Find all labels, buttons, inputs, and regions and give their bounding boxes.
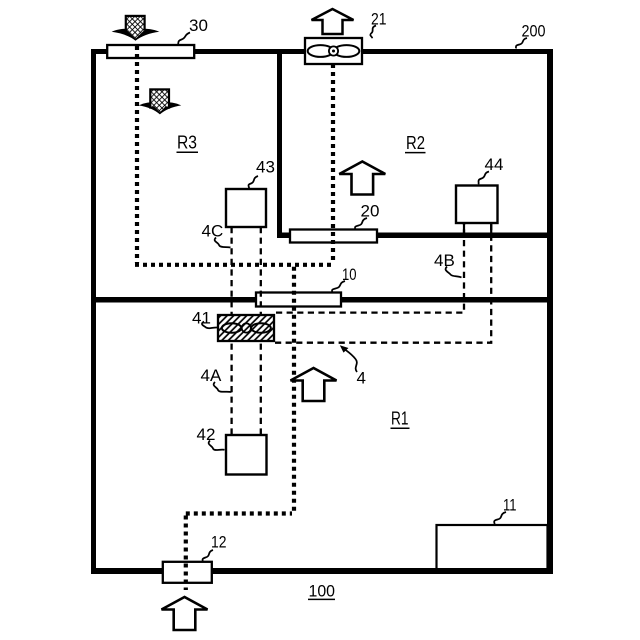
room label R1 <box>391 409 410 429</box>
outer wall bottom <box>91 568 553 574</box>
outside-air down arrow above vent 30 <box>112 16 160 41</box>
vent 20 <box>290 230 377 243</box>
vent 30 <box>107 45 194 58</box>
svg-text:4A: 4A <box>201 366 222 385</box>
fan 21 <box>305 38 362 64</box>
label 43 <box>248 157 274 188</box>
dotted flow line down through vent 12 <box>184 516 188 591</box>
svg-text:12: 12 <box>211 532 227 551</box>
signal line 4C/4A right <box>260 227 262 435</box>
svg-text:44: 44 <box>485 155 504 174</box>
sensor box 44 <box>456 186 498 234</box>
dotted flow line horizontal in R1 <box>186 511 292 515</box>
svg-text:20: 20 <box>361 201 380 220</box>
vent 10 <box>256 293 341 307</box>
label 4A <box>201 366 232 392</box>
dotted flow line up to fan 21 <box>331 64 335 263</box>
room label R2 <box>405 133 426 153</box>
label 41 <box>192 308 218 328</box>
dotted flow line from vent 30 down <box>135 46 139 263</box>
label 4C <box>202 221 231 247</box>
svg-text:R3: R3 <box>177 133 197 153</box>
outer wall left <box>91 49 96 574</box>
svg-text:42: 42 <box>197 425 216 444</box>
supply-air down arrow in R3 <box>139 89 181 114</box>
svg-text:200: 200 <box>522 21 546 40</box>
sensor box 42 <box>226 435 267 475</box>
svg-text:21: 21 <box>371 10 387 29</box>
label 4 with arrow to signal line <box>340 345 366 387</box>
air-flow up arrow in R1 <box>291 368 337 401</box>
sensor box 43 <box>226 189 266 227</box>
signal line 4C/4A left (43 to 41 to 42) <box>230 227 232 435</box>
svg-text:4B: 4B <box>434 251 455 270</box>
svg-text:R2: R2 <box>406 133 425 153</box>
svg-text:4C: 4C <box>202 221 224 240</box>
label 20 <box>355 201 380 229</box>
svg-text:4: 4 <box>357 369 366 388</box>
dotted flow line down through vent 10 <box>292 267 296 514</box>
outer wall top (building 200/100) <box>91 49 553 54</box>
label 10 <box>332 265 357 292</box>
dotted flow line horizontal in underfloor <box>135 263 335 267</box>
exhaust up arrow above fan 21 <box>312 9 354 34</box>
floor label 100 <box>308 581 335 600</box>
fan 41 <box>218 315 274 341</box>
label 4B <box>434 251 462 278</box>
signal line 4B upper (41 to 44 left leg) <box>276 223 464 313</box>
svg-text:100: 100 <box>309 581 336 600</box>
middle floor wall <box>96 297 547 303</box>
label 30 <box>178 16 208 45</box>
room label R3 <box>177 133 199 153</box>
inner wall between R3 and R2 <box>277 54 282 238</box>
outside-air up arrow below vent 12 <box>162 597 208 630</box>
signal line 4B lower (41 to 44 right leg) <box>275 223 491 343</box>
controller box 11 <box>437 525 548 571</box>
label 42 <box>197 425 225 450</box>
label 12 <box>203 532 227 561</box>
label 44 <box>478 155 503 184</box>
svg-text:43: 43 <box>256 157 275 176</box>
svg-text:R1: R1 <box>391 409 409 429</box>
svg-text:30: 30 <box>189 16 208 35</box>
R2 floor wall <box>277 233 547 239</box>
air-flow up arrow in R2 <box>339 162 385 195</box>
label 21 <box>370 10 386 39</box>
vent 12 <box>163 562 212 583</box>
label 11 <box>494 496 516 525</box>
label 200 <box>516 21 546 48</box>
outer wall right <box>547 49 553 574</box>
